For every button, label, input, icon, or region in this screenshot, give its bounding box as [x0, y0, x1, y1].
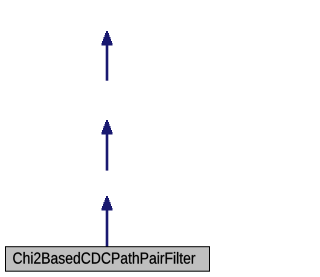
inheritance arrow 1 (top)	[102, 31, 113, 81]
inheritance arrow 3 (bottom)	[102, 196, 113, 247]
class node box Chi2BasedCDCPathPairFilter	[6, 247, 210, 272]
inheritance arrow 2 (middle)	[102, 120, 113, 171]
class name label	[13, 252, 195, 264]
